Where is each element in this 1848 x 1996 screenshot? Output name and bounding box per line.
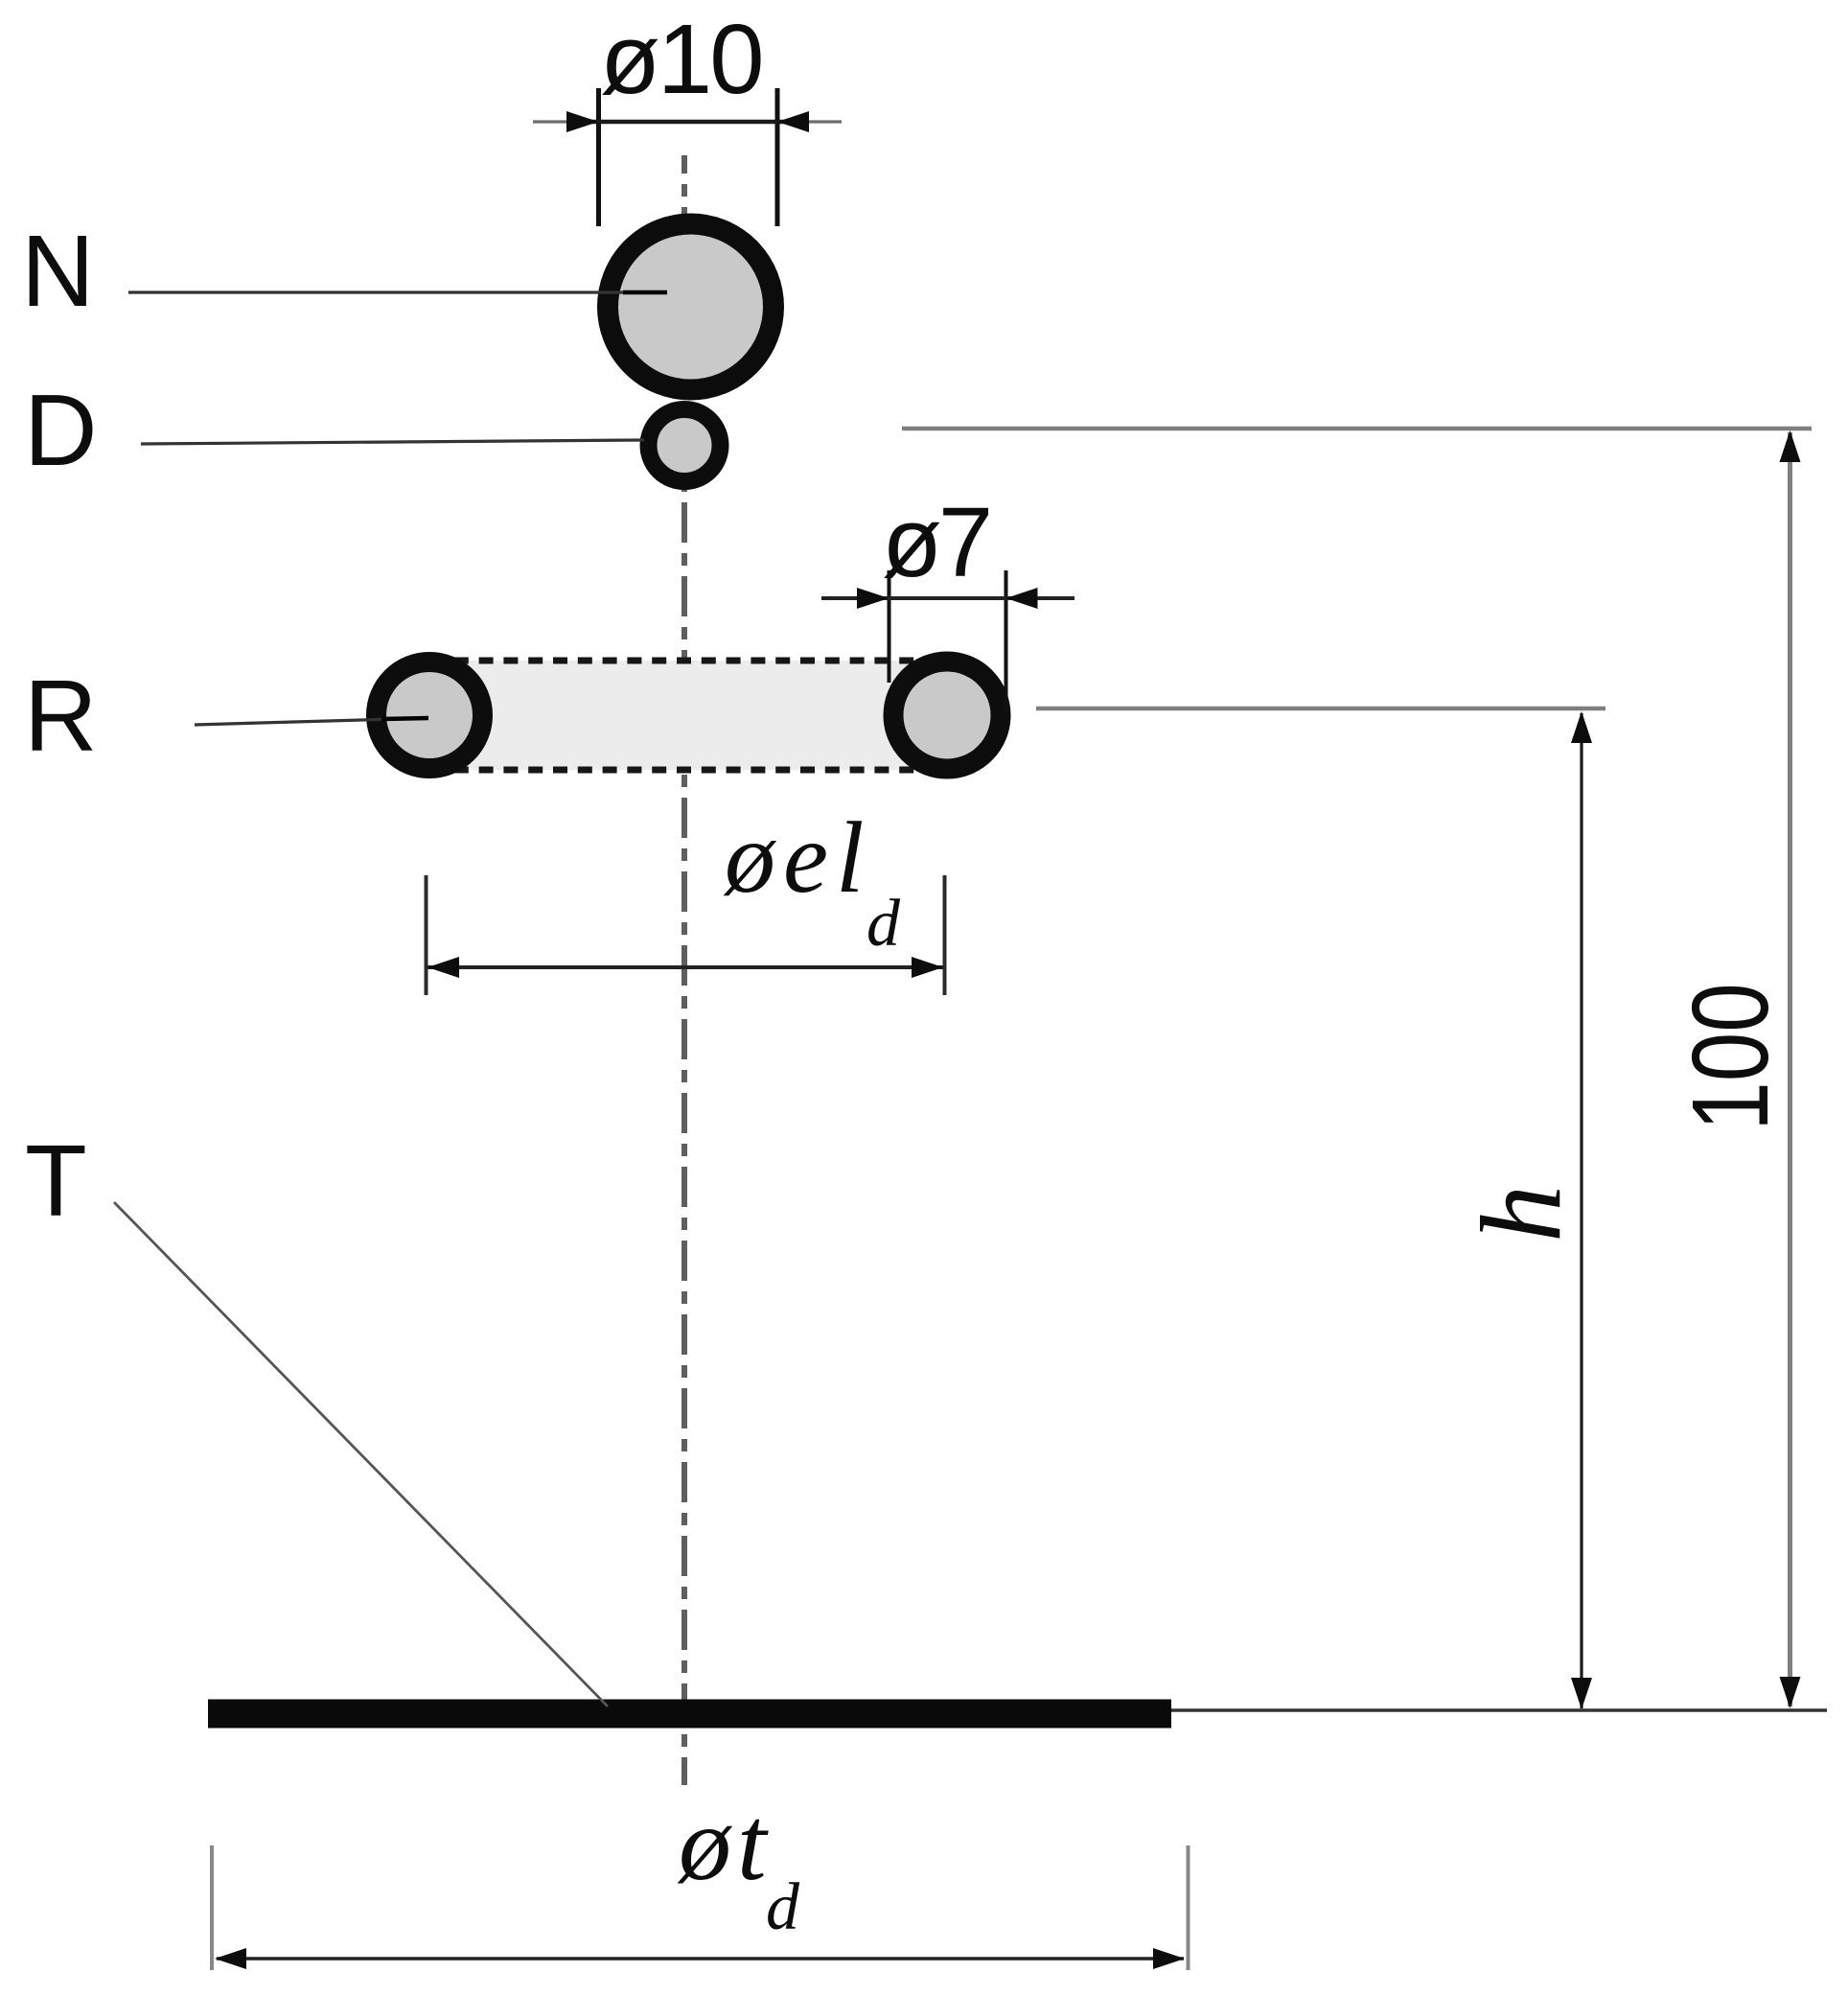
dimension 100: top arrow <box>1780 430 1801 462</box>
dimension øt_d: extension lines <box>210 1845 214 1970</box>
dimension øt_d: right arrow <box>1153 1948 1185 1969</box>
centerline <box>681 155 687 1785</box>
dimension øel_d: extension lines <box>425 875 428 995</box>
dimension ø7: dimension line <box>821 596 1074 600</box>
svg-text:h: h <box>1457 1185 1584 1242</box>
dimension øt_d: left arrow <box>215 1948 246 1969</box>
dimension ø7: extension lines <box>888 570 891 683</box>
svg-text:D: D <box>24 374 98 487</box>
wire: R-level reference line <box>1036 707 1605 711</box>
dimension h: top arrow <box>1571 711 1592 743</box>
svg-text:N: N <box>21 215 95 328</box>
dimension h: bottom arrow <box>1571 1678 1592 1709</box>
svg-text:øt: øt <box>677 1785 773 1902</box>
dimension øt_d: dimension line <box>217 1957 1184 1961</box>
svg-text:øel: øel <box>723 801 872 914</box>
dimension øel_d: left arrow <box>427 957 459 978</box>
svg-text:d: d <box>766 1870 800 1944</box>
dimension ø10: right arrow <box>777 111 809 132</box>
dimension ø10: left arrow <box>566 111 599 132</box>
dimension ø10: dimension line <box>533 120 575 123</box>
band (ring electrode tube span) <box>429 661 947 770</box>
svg-text:100: 100 <box>1670 983 1790 1130</box>
dimension øel_d: dimension line <box>427 965 943 969</box>
leader D <box>141 440 644 444</box>
leader N <box>128 290 667 293</box>
dimension ø7: left arrow <box>857 588 889 609</box>
droplet circle D <box>649 409 721 481</box>
dimension 100: bottom arrow <box>1780 1677 1801 1708</box>
nozzle circle N <box>608 224 774 390</box>
ring R right cross-section <box>893 661 1001 769</box>
dimension ø7: right arrow <box>1006 588 1038 609</box>
dimension h: line <box>1580 713 1582 1708</box>
svg-text:d: d <box>866 887 901 961</box>
dimension øel_d: right arrow <box>912 957 943 978</box>
dimension ø10: extension lines <box>596 88 601 226</box>
svg-text:ø10: ø10 <box>600 4 761 114</box>
leader T <box>114 1202 608 1706</box>
wire: target-level thin line <box>1171 1708 1827 1712</box>
svg-text:R: R <box>24 660 98 773</box>
svg-text:T: T <box>25 1125 87 1238</box>
wire: D-level reference line <box>902 427 1812 431</box>
leader R <box>195 718 428 725</box>
dimension 100: line <box>1788 432 1792 1706</box>
svg-text:ø7: ø7 <box>882 487 989 597</box>
target plate T <box>208 1700 1171 1729</box>
ring R left cross-section <box>377 662 483 769</box>
